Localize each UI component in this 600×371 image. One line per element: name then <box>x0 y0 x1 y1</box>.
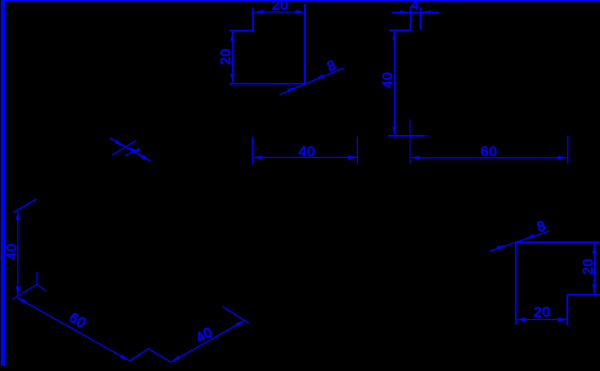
node square step horizontal edge <box>230 30 254 32</box>
dimension 60 horizontal <box>410 119 568 163</box>
node bottom edge of upper-right part <box>388 135 429 137</box>
dimension 40 oblique <box>171 321 244 362</box>
node vertical edge bottom-right part <box>515 242 517 324</box>
node step horizontal edge bottom-right part <box>567 294 600 296</box>
node top edge of upper-right part <box>389 29 411 31</box>
dimension 40 vertical bottom-left <box>3 211 20 295</box>
node square step vertical edge <box>252 8 254 32</box>
svg-text:4: 4 <box>411 0 419 12</box>
svg-text:60: 60 <box>481 143 498 159</box>
node slanted edge upper-left <box>13 199 36 213</box>
svg-text:40: 40 <box>3 243 19 260</box>
dimension 40 vertical top-right <box>379 31 397 135</box>
wire left viewport border bar <box>1 0 5 366</box>
dimension 40 horizontal middle <box>253 137 358 165</box>
wire top viewport border line <box>5 0 600 1</box>
svg-text:20: 20 <box>580 258 596 275</box>
dimension 4 horizontal top-right <box>392 0 440 30</box>
dimension 20 horizontal top <box>254 0 305 14</box>
dimension 8 slanted at corner bottom-right <box>490 217 549 251</box>
dimension 20 vertical left of square <box>217 32 235 83</box>
node corner junction edges <box>13 272 47 300</box>
dimension 20 vertical right <box>580 244 597 293</box>
dimension 20 horizontal bottom <box>517 304 567 322</box>
svg-text:40: 40 <box>299 143 316 159</box>
dimension 8 slanted at square corner <box>280 56 344 94</box>
svg-text:20: 20 <box>272 0 289 12</box>
svg-text:20: 20 <box>217 48 233 65</box>
node step vertical edge bottom-right part <box>566 295 568 326</box>
node top edge bottom-right part <box>515 241 599 243</box>
node square right edge <box>304 4 306 84</box>
node square bottom edge <box>230 83 307 85</box>
node crossed dimension arrows symbol <box>110 138 150 161</box>
svg-text:20: 20 <box>534 304 551 320</box>
dimension 60 oblique <box>17 297 129 360</box>
svg-text:40: 40 <box>379 72 395 89</box>
node extension edge right of oblique 40 <box>223 307 249 324</box>
node notch edges at bottom <box>129 349 171 363</box>
